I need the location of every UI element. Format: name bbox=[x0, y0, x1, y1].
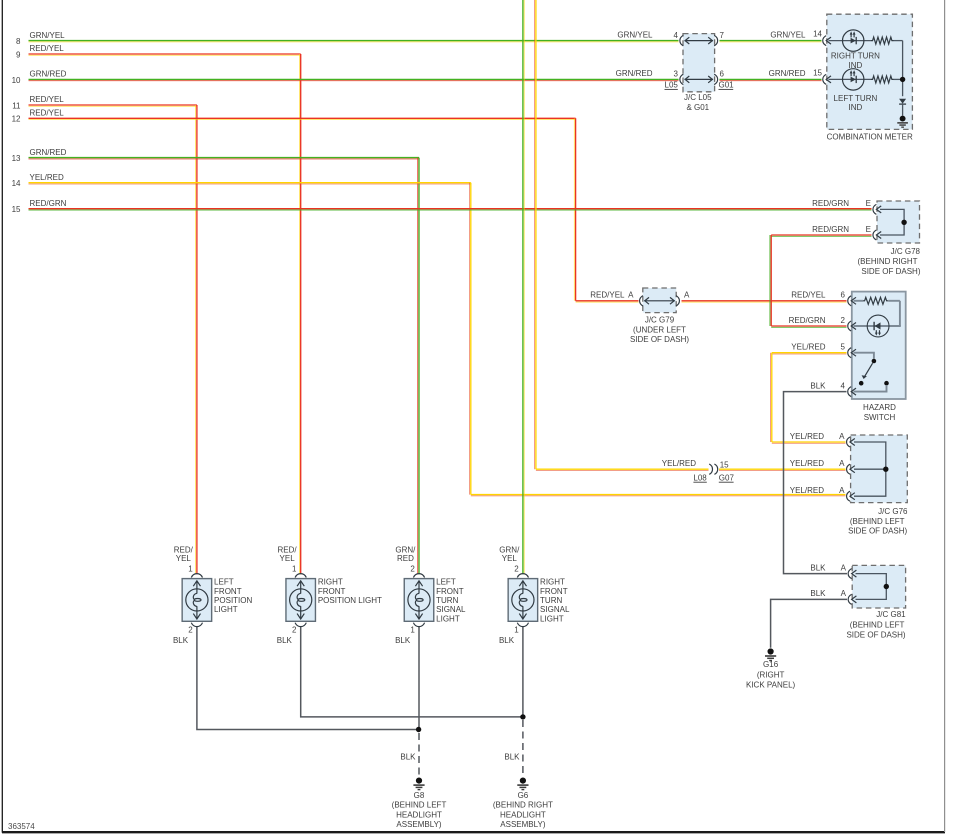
wire 12 RED/YEL from pin 12 to J/C G79 bbox=[12, 109, 639, 303]
wire GRN/YEL vertical from top of page to right front turn signal light bbox=[523, 0, 524, 574]
svg-text:1: 1 bbox=[188, 565, 193, 574]
svg-text:BLK: BLK bbox=[810, 563, 826, 572]
wire RED/YEL from J/C G79 to hazard switch pin 6 bbox=[682, 301, 847, 302]
svg-text:(BEHIND LEFT: (BEHIND LEFT bbox=[392, 801, 447, 810]
junction dot left BLK bbox=[416, 727, 421, 732]
svg-text:9: 9 bbox=[16, 50, 21, 59]
svg-text:RED/GRN: RED/GRN bbox=[30, 199, 67, 208]
svg-text:FRONT: FRONT bbox=[436, 587, 464, 596]
svg-text:LEFT TURN: LEFT TURN bbox=[834, 94, 878, 103]
svg-text:GRN/YEL: GRN/YEL bbox=[770, 30, 806, 39]
wire BLK from left front position light to junction bbox=[197, 626, 419, 729]
svg-text:10: 10 bbox=[12, 76, 21, 85]
svg-text:A: A bbox=[839, 486, 845, 495]
combination meter box bbox=[827, 14, 913, 129]
svg-text:1: 1 bbox=[514, 626, 519, 635]
svg-text:RED/YEL: RED/YEL bbox=[30, 95, 65, 104]
svg-text:3: 3 bbox=[674, 70, 679, 79]
svg-text:RED/YEL: RED/YEL bbox=[791, 291, 826, 300]
svg-text:RIGHT: RIGHT bbox=[318, 578, 343, 587]
combination meter label bbox=[827, 132, 913, 141]
svg-text:SWITCH: SWITCH bbox=[864, 413, 896, 422]
svg-text:2: 2 bbox=[514, 565, 519, 574]
svg-text:A: A bbox=[841, 589, 847, 598]
svg-text:YEL/RED: YEL/RED bbox=[790, 459, 824, 468]
wire BLK from right front turn signal light to ground G6 bbox=[504, 626, 523, 775]
svg-text:11: 11 bbox=[12, 101, 21, 110]
lamp right front turn signal light bbox=[499, 546, 570, 646]
svg-text:G8: G8 bbox=[414, 791, 425, 800]
svg-text:A: A bbox=[628, 291, 634, 300]
combination meter pin 15 connector bbox=[813, 68, 831, 84]
ground G8 bbox=[392, 778, 447, 830]
wire 8 GRN/YEL from J/C L05 pin 7 to combination meter pin 14 bbox=[617, 30, 821, 42]
ground G6 bbox=[493, 778, 553, 830]
svg-text:A: A bbox=[841, 563, 847, 572]
svg-text:8: 8 bbox=[16, 37, 21, 46]
svg-text:J/C G81: J/C G81 bbox=[876, 610, 906, 619]
svg-text:BLK: BLK bbox=[173, 636, 189, 645]
svg-text:ASSEMBLY): ASSEMBLY) bbox=[500, 820, 546, 829]
junction connector J/C G76 bbox=[790, 432, 908, 536]
svg-text:SIGNAL: SIGNAL bbox=[540, 605, 570, 614]
hazard switch pin 4 connector bbox=[810, 381, 856, 396]
svg-text:4: 4 bbox=[674, 31, 679, 40]
left turn indicator LED bbox=[829, 69, 878, 112]
svg-text:GRN/RED: GRN/RED bbox=[30, 70, 67, 79]
svg-text:RIGHT TURN: RIGHT TURN bbox=[831, 52, 880, 61]
junction dot meter bbox=[900, 77, 905, 82]
svg-text:E: E bbox=[866, 225, 871, 234]
svg-text:YEL/RED: YEL/RED bbox=[790, 486, 824, 495]
svg-text:A: A bbox=[684, 291, 690, 300]
diagram id 363574 bbox=[8, 822, 35, 831]
wire 14 YEL/RED from pin 14 to J/C G76 pin A bottom bbox=[12, 173, 846, 496]
hazard indicator LED bbox=[854, 315, 901, 337]
svg-text:6: 6 bbox=[841, 291, 846, 300]
svg-text:IND: IND bbox=[849, 103, 863, 112]
svg-text:RED/YEL: RED/YEL bbox=[30, 109, 65, 118]
svg-text:FRONT: FRONT bbox=[214, 587, 242, 596]
right turn indicator LED U-right bbox=[829, 30, 881, 70]
svg-text:A: A bbox=[839, 459, 845, 468]
svg-text:(BEHIND LEFT: (BEHIND LEFT bbox=[850, 620, 905, 629]
svg-text:TURN: TURN bbox=[436, 596, 458, 605]
hazard switch contact lever bbox=[854, 353, 889, 386]
junction connector J/C G79 bbox=[590, 288, 690, 344]
svg-text:G07: G07 bbox=[719, 473, 735, 482]
wire 11 RED/YEL from pin 11 to left front position light bbox=[12, 95, 197, 574]
wire RED/GRN from J/C G78 pin E bottom to hazard switch pin 2 bbox=[770, 235, 872, 327]
svg-text:BLK: BLK bbox=[504, 753, 520, 762]
svg-text:HEADLIGHT: HEADLIGHT bbox=[396, 810, 442, 819]
svg-text:2: 2 bbox=[410, 565, 415, 574]
svg-text:RED/YEL: RED/YEL bbox=[30, 44, 65, 53]
hazard switch box bbox=[852, 292, 906, 399]
svg-text:GRN/RED: GRN/RED bbox=[769, 69, 806, 78]
svg-text:GRN/RED: GRN/RED bbox=[30, 148, 67, 157]
wire YEL/RED from hazard switch pin 5 to J/C G76 pin A top bbox=[771, 353, 847, 444]
svg-text:TURN: TURN bbox=[540, 596, 562, 605]
inline connector L08/G07 pin 15 bbox=[662, 459, 735, 482]
junction connector J/C L05 & G01 bbox=[665, 31, 735, 112]
svg-text:SIDE OF DASH): SIDE OF DASH) bbox=[848, 527, 907, 536]
wire 13 GRN/RED from pin 13 to left front turn signal light bbox=[12, 148, 419, 575]
svg-text:14: 14 bbox=[813, 30, 822, 39]
svg-text:J/C G79: J/C G79 bbox=[645, 316, 675, 325]
svg-text:RED/YEL: RED/YEL bbox=[590, 291, 625, 300]
svg-text:15: 15 bbox=[813, 68, 822, 77]
svg-text:GRN/YEL: GRN/YEL bbox=[30, 31, 66, 40]
svg-text:SIDE OF DASH): SIDE OF DASH) bbox=[630, 335, 689, 344]
svg-text:BLK: BLK bbox=[810, 381, 826, 390]
svg-text:15: 15 bbox=[720, 460, 729, 469]
svg-text:5: 5 bbox=[841, 343, 846, 352]
svg-text:YEL/RED: YEL/RED bbox=[790, 432, 824, 441]
svg-text:13: 13 bbox=[12, 154, 21, 163]
svg-text:363574: 363574 bbox=[8, 822, 35, 831]
svg-text:(BEHIND RIGHT: (BEHIND RIGHT bbox=[858, 257, 918, 266]
svg-text:YEL/RED: YEL/RED bbox=[791, 343, 825, 352]
svg-text:YEL/RED: YEL/RED bbox=[30, 173, 64, 182]
hazard switch pin 6 connector bbox=[791, 291, 856, 306]
hazard switch pin 2 connector bbox=[789, 316, 856, 331]
svg-text:14: 14 bbox=[12, 179, 21, 188]
svg-text:POSITION LIGHT: POSITION LIGHT bbox=[318, 596, 382, 605]
svg-text:FRONT: FRONT bbox=[318, 587, 346, 596]
hazard pin 4 internal wire bbox=[854, 385, 887, 392]
svg-text:A: A bbox=[839, 432, 845, 441]
hazard switch label bbox=[863, 403, 896, 422]
svg-text:E: E bbox=[866, 199, 871, 208]
svg-text:SIDE OF DASH): SIDE OF DASH) bbox=[846, 631, 905, 640]
hazard resistor bbox=[854, 297, 900, 326]
wire BLK from hazard switch pin 4 to J/C G81 pin A top bbox=[784, 392, 848, 574]
ground symbol inside combination meter bbox=[897, 116, 908, 127]
svg-text:BLK: BLK bbox=[395, 636, 411, 645]
svg-text:1: 1 bbox=[410, 626, 415, 635]
svg-text:HEADLIGHT: HEADLIGHT bbox=[500, 810, 546, 819]
svg-text:RIGHT: RIGHT bbox=[540, 578, 565, 587]
svg-text:G16: G16 bbox=[763, 660, 779, 669]
svg-text:BLK: BLK bbox=[277, 636, 293, 645]
svg-text:LEFT: LEFT bbox=[214, 578, 234, 587]
lamp left front turn signal light bbox=[395, 546, 466, 646]
svg-text:1: 1 bbox=[292, 565, 297, 574]
wire 15 RED/GRN from pin 15 to J/C G78 pin E top bbox=[12, 199, 872, 214]
wire YEL/RED vertical from top of page to connector L08/G07 bbox=[535, 0, 709, 471]
combination meter pin 14 connector bbox=[813, 30, 831, 46]
svg-text:2: 2 bbox=[188, 626, 193, 635]
svg-text:(BEHIND LEFT: (BEHIND LEFT bbox=[850, 517, 905, 526]
svg-text:RED/GRN: RED/GRN bbox=[812, 225, 849, 234]
junction connector J/C G81 bbox=[810, 563, 906, 639]
svg-text:2: 2 bbox=[292, 626, 297, 635]
svg-text:GRN/YEL: GRN/YEL bbox=[617, 30, 653, 39]
svg-text:J/C L05: J/C L05 bbox=[684, 93, 712, 102]
svg-text:7: 7 bbox=[720, 31, 725, 40]
svg-text:4: 4 bbox=[841, 381, 846, 390]
resistor right turn bbox=[871, 37, 903, 44]
svg-text:LEFT: LEFT bbox=[436, 578, 456, 587]
svg-text:2: 2 bbox=[841, 316, 846, 325]
resistor left turn bbox=[871, 76, 903, 83]
svg-text:J/C G78: J/C G78 bbox=[891, 247, 921, 256]
svg-text:L08: L08 bbox=[693, 473, 707, 482]
svg-text:(BEHIND RIGHT: (BEHIND RIGHT bbox=[493, 801, 553, 810]
junction connector J/C G78 bbox=[812, 199, 921, 276]
svg-text:BLK: BLK bbox=[499, 636, 515, 645]
svg-text:6: 6 bbox=[720, 70, 725, 79]
svg-text:L05: L05 bbox=[665, 81, 679, 90]
svg-text:COMBINATION METER: COMBINATION METER bbox=[827, 132, 913, 141]
diode meter bbox=[899, 99, 906, 116]
svg-text:BLK: BLK bbox=[400, 753, 416, 762]
svg-text:YEL: YEL bbox=[176, 554, 192, 563]
svg-text:G01: G01 bbox=[719, 81, 735, 90]
svg-text:POSITION: POSITION bbox=[214, 596, 252, 605]
meter internal wire to diode bbox=[902, 41, 904, 97]
wire 8 GRN/YEL from pin 8 to J/C L05 pin 4 bbox=[16, 31, 678, 46]
svg-text:J/C G76: J/C G76 bbox=[878, 507, 908, 516]
wire 10 GRN/RED from J/C L05 pin 6 to combination meter pin 15 bbox=[616, 69, 822, 81]
wire BLK from right front position light to junction bbox=[301, 626, 523, 717]
wire BLK from left front turn signal light to ground G8 bbox=[400, 626, 419, 775]
svg-text:HAZARD: HAZARD bbox=[863, 403, 896, 412]
svg-text:FRONT: FRONT bbox=[540, 587, 568, 596]
svg-text:GRN/RED: GRN/RED bbox=[616, 69, 653, 78]
svg-text:(RIGHT: (RIGHT bbox=[757, 670, 785, 679]
svg-text:ASSEMBLY): ASSEMBLY) bbox=[396, 820, 442, 829]
wire YEL/RED from connector L08/G07 to J/C G76 pin A middle bbox=[719, 469, 846, 470]
svg-text:& G01: & G01 bbox=[686, 103, 709, 112]
svg-text:LIGHT: LIGHT bbox=[436, 614, 460, 623]
svg-text:BLK: BLK bbox=[810, 589, 826, 598]
ground G16 bbox=[746, 648, 796, 689]
svg-text:YEL/RED: YEL/RED bbox=[662, 459, 696, 468]
wire 10 GRN/RED from pin 10 to J/C L05 pin 3 bbox=[12, 70, 679, 85]
wire BLK from J/C G81 pin A bottom to ground G16 bbox=[771, 599, 847, 647]
lamp right front position light bbox=[277, 546, 382, 646]
svg-text:RED: RED bbox=[397, 554, 414, 563]
svg-text:YEL: YEL bbox=[280, 554, 296, 563]
svg-text:YEL: YEL bbox=[502, 554, 518, 563]
wire 9 RED/YEL from pin 9 to right front position light bbox=[16, 44, 301, 574]
svg-text:12: 12 bbox=[12, 115, 21, 124]
svg-text:SIDE OF DASH): SIDE OF DASH) bbox=[861, 267, 920, 276]
svg-text:G6: G6 bbox=[518, 791, 529, 800]
svg-text:LIGHT: LIGHT bbox=[540, 614, 564, 623]
svg-text:RED/GRN: RED/GRN bbox=[789, 316, 826, 325]
svg-text:RED/GRN: RED/GRN bbox=[812, 199, 849, 208]
hazard switch pin 5 connector bbox=[791, 343, 856, 358]
junction dot right BLK bbox=[520, 714, 525, 719]
svg-text:LIGHT: LIGHT bbox=[214, 605, 238, 614]
lamp left front position light bbox=[173, 546, 253, 646]
svg-text:(UNDER LEFT: (UNDER LEFT bbox=[633, 325, 686, 334]
svg-text:SIGNAL: SIGNAL bbox=[436, 605, 466, 614]
svg-text:KICK PANEL): KICK PANEL) bbox=[746, 680, 796, 689]
svg-text:15: 15 bbox=[12, 205, 21, 214]
